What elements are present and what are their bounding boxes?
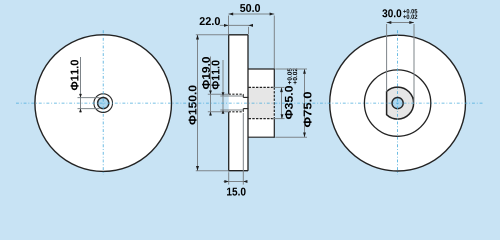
boss D75 fill <box>248 69 274 137</box>
dimension 30.0 ext lines <box>386 24 388 92</box>
hub bore D35 grey fill <box>249 87 275 118</box>
dimension D11.0 (left view) extension lines <box>78 97 100 99</box>
dimension D75.0 line <box>304 69 306 137</box>
boss circle D75 <box>364 70 430 136</box>
dimension D150.0 extension lines <box>196 34 229 36</box>
dimension D75.0 ext lines <box>275 68 307 70</box>
counterbore step <box>242 94 244 97</box>
boss outline solid edges <box>248 68 274 70</box>
dimension D11.0 (left view) label <box>71 60 79 90</box>
D-shaped hub bore D35 with flat <box>387 87 414 119</box>
dimension D11.0 (left view) arrows <box>79 94 82 98</box>
dimension D150.0 arrows <box>196 35 199 40</box>
bore circle D11 <box>98 98 109 109</box>
vertical centerline right view <box>397 30 399 175</box>
dimension D11.0 (middle) ext lines <box>220 95 243 97</box>
dimension 15.0 line <box>224 181 248 183</box>
dimension D11.0 (middle) arrows <box>222 92 225 96</box>
dimension D75.0 arrows <box>303 69 306 74</box>
disc profile outline <box>228 34 248 36</box>
dimension 50.0 extension lines <box>228 16 230 35</box>
hub bore D35 hidden dashed edges <box>249 86 275 88</box>
dimension 22.0 line <box>220 24 253 26</box>
vertical centerline left view <box>102 30 104 175</box>
disc outer circle D150 <box>330 35 466 171</box>
dimension 30.0 arrows <box>387 21 392 24</box>
dimension D19.0 arrows <box>209 91 212 95</box>
dimension D11.0 (middle) label <box>212 60 220 89</box>
dimension D19.0 line <box>210 57 212 116</box>
disc profile fill <box>229 35 248 171</box>
dimension D35.0 label with tolerance <box>285 68 297 119</box>
dimension 15.0 label <box>227 188 246 196</box>
dimension D35.0 line <box>281 87 283 118</box>
dimension 30.0 label with tolerance <box>382 9 401 17</box>
dimension D11.0 (left view) dimension line <box>80 57 82 113</box>
dimension D19.0 ext lines <box>208 93 229 95</box>
counterbore circle D19 <box>94 94 113 113</box>
dimension D11.0 (middle) line <box>222 60 224 114</box>
dimension D19.0 label <box>202 57 210 89</box>
dimension D35.0 arrows <box>280 87 283 92</box>
dimension D35.0 ext lines <box>273 86 285 88</box>
horizontal centerline across all views <box>16 102 484 104</box>
dimension D150.0 label <box>189 86 197 125</box>
dimension 15.0 ext lines <box>228 172 230 184</box>
dimension 50.0 label <box>240 4 260 12</box>
disc outer circle D150 <box>35 35 172 172</box>
dimension 50.0 line <box>229 13 275 15</box>
dimension D150.0 line <box>197 35 199 171</box>
dimension 15.0 arrows <box>224 180 228 183</box>
dimension 22.0 label <box>200 17 220 25</box>
counterbore D19 hidden lines <box>229 93 244 95</box>
dimension 22.0 extension line <box>248 27 250 34</box>
bore circle D11 <box>392 98 403 109</box>
dimension 30.0 line <box>387 22 414 24</box>
dimension 50.0 arrows <box>229 13 234 16</box>
dimension D75.0 label <box>304 92 312 127</box>
bore D11 lines <box>243 96 248 98</box>
dimension 22.0 arrows <box>224 24 229 27</box>
